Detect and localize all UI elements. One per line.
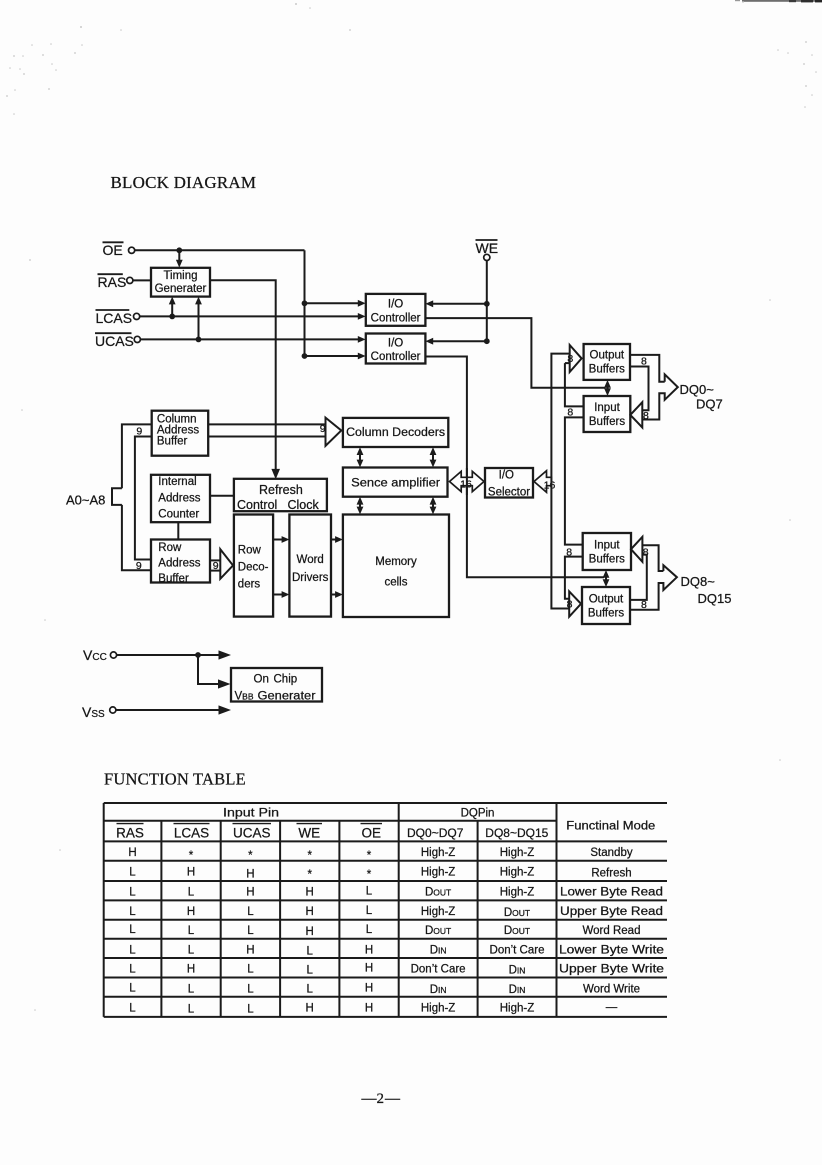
- svg-text:Standby: Standby: [590, 847, 632, 859]
- junction Vcc branch: [195, 652, 201, 658]
- terminal WE: [484, 254, 490, 260]
- block Word Drivers: [289, 515, 331, 617]
- svg-text:8: 8: [567, 599, 573, 611]
- svg-text:BLOCK DIAGRAM: BLOCK DIAGRAM: [111, 173, 257, 192]
- table header LCAS: [174, 824, 210, 841]
- svg-text:Word: Word: [297, 554, 324, 566]
- bus fat arrow into Input Buffers 1: [630, 402, 649, 427]
- table row last: [129, 1001, 617, 1015]
- svg-text:DQ0~DQ7: DQ0~DQ7: [407, 826, 464, 840]
- wire address bus outer down to Row Address Buffer: [122, 505, 151, 570]
- bus fat arrow into Input Buffers 2: [631, 537, 649, 562]
- svg-text:L: L: [247, 906, 254, 918]
- svg-text:L: L: [129, 964, 136, 976]
- node WE label: [476, 240, 499, 256]
- wire OE horizontal: [135, 249, 305, 251]
- bus data pipe inner segment input buffers 1 to input buffers 2: [565, 417, 584, 544]
- table row Word Read: [129, 924, 640, 938]
- wire buffer pair 1 double arrow: [604, 380, 611, 396]
- svg-text:9: 9: [136, 426, 142, 438]
- table header RAS: [116, 824, 144, 841]
- junction OE to I/O controller 2: [302, 353, 308, 359]
- svg-text:L: L: [306, 984, 313, 996]
- svg-text:Chip: Chip: [274, 673, 298, 685]
- table header WE: [297, 824, 323, 841]
- bus data pipe outer vertical: [551, 354, 569, 609]
- node DQ0~DQ7 label: [680, 382, 723, 411]
- svg-text:High-Z: High-Z: [421, 847, 456, 859]
- wire WE to I/O controller 2: [425, 338, 486, 345]
- svg-text:L: L: [247, 1003, 254, 1015]
- table row Standby: [128, 847, 633, 862]
- svg-text:8: 8: [567, 353, 573, 365]
- svg-text:DQ8~DQ15: DQ8~DQ15: [485, 826, 548, 840]
- svg-text:*: *: [367, 869, 372, 881]
- svg-text:*: *: [248, 850, 253, 862]
- svg-text:H: H: [187, 906, 195, 918]
- table row Word Write: [129, 983, 640, 996]
- svg-text:H: H: [365, 944, 373, 956]
- block I/O Controller 2: [366, 334, 426, 364]
- svg-text:High-Z: High-Z: [500, 847, 535, 859]
- svg-text:High-Z: High-Z: [421, 1002, 456, 1014]
- svg-text:H: H: [246, 887, 254, 899]
- bus data pipe inner segment to input buffers 1: [565, 363, 584, 406]
- svg-text:L: L: [366, 924, 373, 936]
- svg-text:Drivers: Drivers: [292, 572, 329, 584]
- svg-text:Buffers: Buffers: [589, 416, 625, 428]
- svg-text:L: L: [129, 1002, 136, 1014]
- wire Column Decoders to Sence amplifier left double arrow: [357, 447, 364, 467]
- wire Vss horizontal arrow: [116, 705, 231, 714]
- svg-text:High-Z: High-Z: [500, 887, 535, 899]
- table row Upper Byte Write: [129, 963, 664, 977]
- bus Row Address Buffer to Row Decoders pipe: [210, 549, 233, 579]
- wire Sence amplifier to Memory cells right double arrow: [430, 497, 437, 515]
- svg-text:9: 9: [136, 560, 142, 572]
- svg-text:L: L: [306, 965, 313, 977]
- svg-text:A0~A8: A0~A8: [66, 493, 105, 508]
- table header UCAS: [233, 824, 272, 841]
- wire LCAS to I/O controller 1: [140, 313, 366, 320]
- terminal OE: [129, 247, 135, 253]
- svg-text:H: H: [306, 887, 314, 899]
- scan smudge top right: [735, 0, 822, 2]
- svg-text:L: L: [188, 887, 195, 899]
- svg-text:DIN: DIN: [509, 984, 526, 996]
- svg-text:ders: ders: [238, 579, 261, 591]
- svg-text:8: 8: [643, 546, 649, 558]
- svg-text:H: H: [365, 1002, 373, 1014]
- wire address bus inner line column to row: [135, 437, 152, 560]
- wire A0~A8 staple connector: [112, 488, 122, 505]
- wire Word Drivers to Memory cells upper arrow: [331, 536, 343, 543]
- wire I/O controller 2 line crossing selector arrow overlay: [466, 468, 468, 495]
- bus data pipe inner segment to output buffers 2: [565, 557, 583, 599]
- block Refresh Control Clock: [234, 479, 327, 512]
- node DQ8~DQ15 label: [681, 574, 732, 606]
- wire Internal Address Counter to Row Address Buffer: [177, 522, 179, 539]
- svg-text:Buffers: Buffers: [589, 553, 625, 565]
- svg-text:L: L: [188, 984, 195, 996]
- svg-text:I/O: I/O: [388, 298, 403, 310]
- block Output Buffers 1: [584, 344, 630, 380]
- svg-text:DIN: DIN: [430, 984, 447, 996]
- svg-text:High-Z: High-Z: [421, 906, 456, 918]
- wire OE to I/O controller 2: [305, 353, 366, 360]
- svg-text:RAS: RAS: [116, 825, 144, 840]
- block Row Address Buffer: [151, 540, 210, 585]
- wire LCAS branch up to Timing Generater: [169, 297, 176, 317]
- svg-text:Don’t Care: Don’t Care: [411, 964, 466, 976]
- svg-text:Row: Row: [238, 545, 262, 557]
- svg-text:Lower Byte Read: Lower Byte Read: [560, 887, 663, 899]
- svg-text:RAS: RAS: [98, 274, 127, 290]
- wire WE to I/O controller 1: [425, 300, 486, 307]
- block Timing Generater: [151, 268, 210, 297]
- svg-text:L: L: [129, 924, 136, 936]
- table row Refresh: [129, 866, 631, 881]
- table row Lower Byte Write: [129, 944, 664, 957]
- terminal Vcc: [110, 652, 116, 658]
- wire I/O controller 1 output to buffer pair 1: [425, 318, 605, 388]
- svg-text:UCAS: UCAS: [233, 825, 271, 840]
- svg-text:Word Write: Word Write: [583, 984, 640, 996]
- svg-text:L: L: [188, 1003, 195, 1015]
- svg-text:H: H: [246, 944, 254, 956]
- svg-text:Counter: Counter: [158, 509, 199, 521]
- svg-text:Buffer: Buffer: [157, 436, 188, 448]
- junction WE to I/O controller 1: [484, 301, 490, 307]
- block Memory cells: [343, 515, 449, 618]
- svg-text:OE: OE: [361, 825, 381, 840]
- table header OE: [361, 824, 383, 841]
- svg-text:Controller: Controller: [371, 312, 421, 324]
- bus Column Address Buffer to Column Decoders pipe: [208, 418, 341, 446]
- terminal UCAS: [134, 336, 140, 342]
- table row Lower Byte Read: [129, 886, 663, 899]
- junction WE to I/O controller 2: [484, 338, 490, 344]
- svg-text:OE: OE: [103, 242, 123, 258]
- svg-text:8: 8: [566, 547, 572, 559]
- svg-text:Selector: Selector: [488, 487, 530, 499]
- svg-text:H: H: [187, 964, 195, 976]
- svg-text:16: 16: [544, 479, 556, 491]
- wire buffer pair 2 double arrow: [603, 570, 610, 587]
- svg-text:High-Z: High-Z: [500, 1002, 535, 1014]
- svg-text:L: L: [306, 945, 313, 957]
- svg-text:Control: Control: [237, 498, 277, 512]
- bus data bus to I/O Selector fat arrow 16: [534, 471, 555, 493]
- svg-text:Input: Input: [594, 402, 620, 414]
- svg-text:L: L: [247, 984, 254, 996]
- svg-text:Controller: Controller: [371, 351, 421, 363]
- block I/O Controller 1: [366, 294, 426, 326]
- svg-text:8: 8: [641, 599, 647, 611]
- wire OE branch down to Timing Generater: [176, 250, 183, 267]
- junction UCAS to timing: [196, 337, 202, 343]
- node OE label: [103, 242, 124, 258]
- svg-text:I/O: I/O: [499, 470, 514, 482]
- svg-text:Clock: Clock: [288, 498, 320, 512]
- svg-text:H: H: [187, 866, 195, 878]
- wire UCAS branch up to Timing Generater: [195, 297, 202, 340]
- svg-text:H: H: [365, 983, 373, 995]
- junction OE to timing: [176, 247, 182, 253]
- svg-text:LCAS: LCAS: [96, 310, 133, 326]
- svg-text:L: L: [129, 887, 136, 899]
- wire Internal Address Counter to Refresh Control Clock: [210, 495, 234, 497]
- svg-text:On: On: [254, 673, 269, 685]
- svg-text:Don’t Care: Don’t Care: [490, 944, 545, 956]
- svg-text:H: H: [306, 1002, 314, 1014]
- svg-text:*: *: [307, 869, 312, 881]
- svg-text:UCAS: UCAS: [95, 333, 134, 349]
- block Sence amplifier: [343, 468, 448, 497]
- svg-text:L: L: [129, 906, 136, 918]
- svg-text:High-Z: High-Z: [500, 866, 535, 878]
- svg-text:*: *: [307, 850, 312, 862]
- svg-text:Output: Output: [590, 350, 625, 362]
- wire Vcc horizontal arrow: [117, 650, 231, 659]
- svg-text:L: L: [129, 866, 136, 878]
- svg-text:DOUT: DOUT: [504, 907, 530, 919]
- svg-text:8: 8: [641, 355, 647, 367]
- svg-text:Internal: Internal: [158, 476, 196, 488]
- block Input Buffers 2: [583, 533, 631, 570]
- wire Timing Generater output to Refresh Control Clock: [210, 280, 280, 479]
- svg-text:2: 2: [377, 1091, 385, 1107]
- svg-text:LCAS: LCAS: [174, 825, 209, 840]
- svg-text:9: 9: [320, 423, 326, 435]
- bus data pipe inner segment to output buffers 1: [565, 362, 570, 364]
- block Column Decoders: [343, 418, 448, 447]
- table frame vertical lines: [104, 803, 557, 1017]
- wire Sence amplifier to Memory cells left double arrow: [357, 497, 364, 515]
- node LCAS label: [96, 310, 133, 326]
- svg-text:Word Read: Word Read: [583, 925, 641, 937]
- node RAS label: [98, 274, 127, 290]
- svg-text:DQ0~: DQ0~: [680, 382, 715, 397]
- svg-text:L: L: [188, 944, 195, 956]
- svg-text:Memory: Memory: [375, 556, 417, 568]
- wire RAS to Timing Generater: [133, 279, 151, 281]
- wire Word Drivers to Memory cells lower arrow: [331, 591, 343, 598]
- svg-text:H: H: [365, 963, 373, 975]
- svg-text:Buffer: Buffer: [158, 573, 189, 585]
- svg-text:WE: WE: [476, 240, 499, 256]
- svg-text:H: H: [306, 906, 314, 918]
- svg-text:VBB: VBB: [235, 690, 254, 702]
- wire Row Decoders to Word Drivers upper arrow: [273, 536, 289, 543]
- svg-text:Lower Byte Write: Lower Byte Write: [559, 944, 664, 956]
- table frame horizontal lines: [104, 803, 667, 1017]
- svg-text:H: H: [246, 868, 254, 880]
- bus Output Buffers 1 to DQ0 pipe: [630, 355, 665, 410]
- svg-text:H: H: [306, 926, 314, 938]
- svg-text:8: 8: [643, 410, 649, 422]
- svg-text:Upper Byte Read: Upper Byte Read: [560, 906, 663, 918]
- block Row Decoders: [234, 515, 273, 617]
- terminal LCAS: [134, 313, 140, 319]
- svg-text:Timing: Timing: [163, 270, 197, 282]
- svg-text:DQ15: DQ15: [698, 591, 732, 606]
- wire Row Decoders to Word Drivers lower arrow: [273, 591, 289, 598]
- svg-text:Column Decoders: Column Decoders: [346, 427, 445, 439]
- svg-text:Upper Byte Write: Upper Byte Write: [559, 964, 664, 976]
- svg-text:H: H: [128, 847, 136, 859]
- svg-text:*: *: [367, 850, 372, 862]
- block I/O Selector: [485, 468, 533, 499]
- svg-text:Generater: Generater: [155, 283, 207, 295]
- wire OE to I/O controller 1: [305, 300, 366, 307]
- svg-text:WE: WE: [298, 825, 320, 840]
- svg-text:L: L: [366, 905, 373, 917]
- bus fat arrow into Output Buffers 2: [567, 591, 581, 616]
- svg-text:Refresh: Refresh: [591, 867, 631, 879]
- svg-text:High-Z: High-Z: [421, 866, 456, 878]
- block Internal Address Counter: [151, 475, 210, 522]
- svg-text:DOUT: DOUT: [425, 887, 451, 899]
- svg-text:DQ8~: DQ8~: [681, 574, 716, 589]
- node Vcc label: [83, 647, 107, 663]
- block On Chip VBB Generater: [231, 668, 322, 702]
- svg-text:Output: Output: [589, 593, 624, 605]
- port DQ8-DQ15 fat arrow: [630, 565, 677, 611]
- svg-text:—: —: [361, 1091, 378, 1107]
- svg-text:DQ7: DQ7: [696, 396, 723, 411]
- svg-text:Refresh: Refresh: [259, 483, 303, 497]
- node Vss label: [82, 704, 105, 720]
- node UCAS label: [95, 333, 134, 349]
- svg-text:—: —: [606, 1001, 618, 1013]
- bus Input Buffers 2 arrow tails to DQ8: [630, 545, 663, 600]
- svg-text:Address: Address: [158, 557, 200, 569]
- junction OE to I/O controller 1: [302, 300, 308, 306]
- wire UCAS to I/O controller 2: [141, 336, 366, 343]
- wire I/O controller 2 output to buffer pair 2: [425, 357, 604, 578]
- svg-text:8: 8: [567, 406, 573, 418]
- port DQ0-DQ7 fat arrow: [642, 374, 678, 419]
- block Output Buffers 2: [582, 587, 630, 624]
- svg-text:Deco-: Deco-: [238, 562, 269, 574]
- svg-text:DOUT: DOUT: [504, 925, 530, 937]
- wire Vcc branch to VBB generater: [198, 655, 231, 689]
- wire Column Decoders to Sence amplifier right double arrow: [430, 447, 437, 467]
- svg-text:Input Pin: Input Pin: [223, 808, 279, 820]
- block Input Buffers 1: [584, 396, 631, 432]
- svg-text:FUNCTION TABLE: FUNCTION TABLE: [104, 770, 246, 789]
- wire address bus outer up to Column Address Buffer: [122, 424, 152, 488]
- terminal Vss: [110, 707, 116, 713]
- svg-text:L: L: [247, 925, 254, 937]
- svg-text:Buffers: Buffers: [588, 607, 624, 619]
- wire WE vertical: [486, 261, 488, 342]
- svg-text:L: L: [247, 964, 254, 976]
- svg-text:L: L: [188, 925, 195, 937]
- svg-text:Column: Column: [157, 413, 197, 425]
- svg-text:—: —: [384, 1091, 401, 1107]
- svg-text:Functinal Mode: Functinal Mode: [566, 821, 655, 833]
- svg-text:DQPin: DQPin: [461, 808, 495, 820]
- terminal RAS: [127, 277, 133, 283]
- svg-text:L: L: [129, 944, 136, 956]
- block Column Address Buffer: [152, 411, 209, 456]
- svg-text:DOUT: DOUT: [425, 925, 451, 937]
- svg-text:Sence amplifier: Sence amplifier: [351, 477, 440, 489]
- svg-text:Generater: Generater: [258, 690, 316, 702]
- svg-text:*: *: [189, 850, 194, 862]
- table row Upper Byte Read: [129, 905, 663, 919]
- junction LCAS to timing: [169, 314, 175, 320]
- svg-text:Buffers: Buffers: [589, 364, 625, 376]
- svg-text:cells: cells: [384, 577, 407, 589]
- svg-text:Row: Row: [158, 542, 182, 554]
- svg-text:L: L: [366, 886, 373, 898]
- svg-text:DIN: DIN: [430, 944, 447, 956]
- wire OE vertical bus: [304, 250, 306, 356]
- svg-text:I/O: I/O: [388, 337, 403, 349]
- svg-text:Input: Input: [594, 539, 620, 551]
- svg-text:L: L: [129, 983, 136, 995]
- bus fat arrow into Output Buffers 1: [567, 345, 581, 372]
- svg-text:9: 9: [213, 560, 219, 572]
- svg-text:DIN: DIN: [509, 965, 526, 977]
- svg-text:Address: Address: [158, 492, 200, 504]
- bus Sence amplifier to I/O Selector double fat arrow 16: [450, 471, 485, 491]
